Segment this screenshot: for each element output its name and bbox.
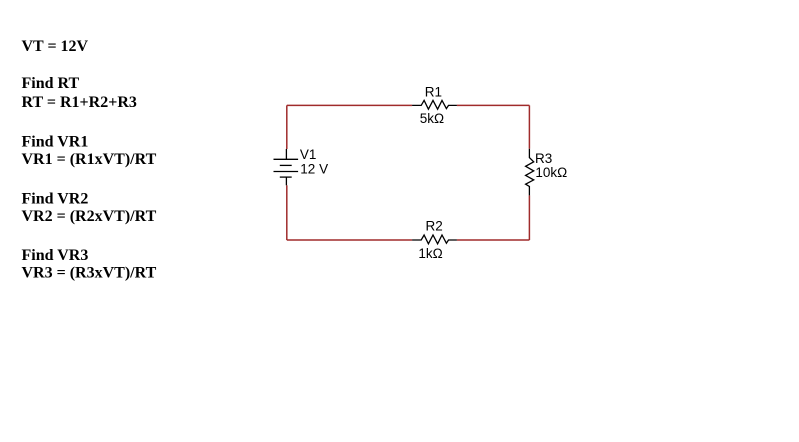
equation text VR3 = (R3xVT)/RT [22, 265, 157, 282]
svg-text:VR3 = (R3xVT)/RT: VR3 = (R3xVT)/RT [22, 265, 157, 282]
equation text RT = R1+R2+R3 [22, 94, 137, 111]
equation text VR1 = (R1xVT)/RT [22, 151, 157, 168]
equation text VT = 12V [22, 38, 89, 55]
value 12 V [300, 162, 328, 177]
wire right lower segment [528, 195, 530, 240]
label R3 [535, 151, 552, 166]
wire right upper segment [528, 105, 530, 148]
wire bottom-right segment [457, 239, 530, 241]
svg-text:V1: V1 [300, 147, 317, 162]
equation text Find VR2 [22, 190, 89, 207]
svg-text:12 V: 12 V [300, 162, 328, 177]
resistor R2 [412, 235, 457, 244]
resistor R3 [526, 149, 534, 196]
equation text Find VR3 [22, 247, 89, 264]
svg-text:Find VR3: Find VR3 [22, 247, 89, 264]
wire bottom-left segment [287, 239, 412, 241]
equation text VR2 = (R2xVT)/RT [22, 208, 157, 225]
equation text Find RT [22, 75, 80, 92]
battery V1 [274, 149, 299, 185]
wire left lower segment [286, 185, 288, 240]
svg-text:10kΩ: 10kΩ [535, 165, 567, 180]
resistor R1 [412, 100, 457, 109]
svg-text:RT = R1+R2+R3: RT = R1+R2+R3 [22, 94, 137, 111]
svg-text:5kΩ: 5kΩ [420, 111, 444, 126]
value 1kΩ [418, 246, 442, 261]
svg-text:VR1 = (R1xVT)/RT: VR1 = (R1xVT)/RT [22, 151, 157, 168]
label R2 [426, 219, 443, 234]
svg-text:1kΩ: 1kΩ [418, 246, 442, 261]
svg-text:Find RT: Find RT [22, 75, 80, 92]
svg-text:R3: R3 [535, 151, 552, 166]
svg-text:R1: R1 [425, 85, 442, 100]
label R1 [425, 85, 442, 100]
value 5kΩ [420, 111, 444, 126]
wire top-right segment [457, 104, 530, 106]
wire left upper segment [286, 105, 288, 149]
svg-text:VR2 = (R2xVT)/RT: VR2 = (R2xVT)/RT [22, 208, 157, 225]
equation text Find VR1 [22, 133, 89, 150]
value 10kΩ [535, 165, 567, 180]
svg-text:Find VR2: Find VR2 [22, 190, 89, 207]
wire top-left segment [287, 104, 412, 106]
svg-text:Find VR1: Find VR1 [22, 133, 89, 150]
svg-text:R2: R2 [426, 219, 443, 234]
label V1 [300, 147, 317, 162]
svg-text:VT = 12V: VT = 12V [22, 38, 89, 55]
